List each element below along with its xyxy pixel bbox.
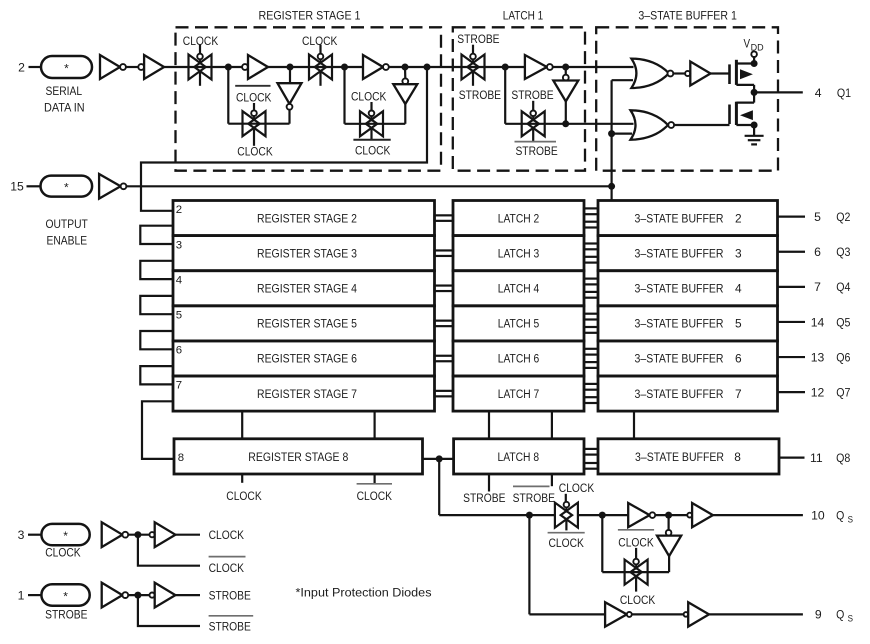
svg-text:7: 7 [176,380,182,392]
svg-text:CLOCK: CLOCK [618,536,653,550]
transmission gate latch 1 feedback [522,111,539,136]
wire node to master feedback inverter [289,67,291,83]
wire label to QS TG bubble [565,494,567,502]
input protection diode (pill) clock [41,524,89,545]
label STROBE-bar below latch feedback TG [515,141,557,143]
inverter D master feedback (points down) [278,83,302,104]
svg-text:4: 4 [176,274,182,286]
svg-text:Q6: Q6 [836,350,850,364]
wire cascade loop stage 5 to stage 6 [140,331,173,349]
wire output Q6 lead [778,356,806,358]
inverter E slave feedback (points down, input bubble) [402,78,408,84]
svg-text:2: 2 [735,211,742,225]
wire label to TG B bubble [370,102,372,111]
transmission gate TG B slave feedback [360,111,377,136]
bubble NOR1 output [668,71,674,77]
inverter H latch 1 [525,55,547,79]
svg-text:CLOCK: CLOCK [559,481,594,495]
label STROBE-bar below latch 8 [513,485,550,487]
svg-text:8: 8 [734,450,741,464]
3-state buffer 8 box [598,439,779,474]
wire label to TG A bubble [253,103,255,110]
wire QS-bar output lead [709,613,803,615]
svg-text:OUTPUT: OUTPUT [46,217,89,231]
wire master feedback line [228,123,289,125]
wire OE vertical riser [610,80,612,200]
svg-text:STROBE: STROBE [511,88,553,102]
wire STROBE-bar stub below latch 8 [551,474,553,486]
wire QS takeoff down [438,459,440,515]
wire buffer C out to TG2 [268,66,363,68]
wire STROBE rail to latch 8 [488,411,490,439]
wire TG1 bottom stub [199,73,201,86]
svg-text:LATCH 2: LATCH 2 [498,211,540,225]
svg-text:15: 15 [10,180,24,194]
connector register 5 to latch 5 [435,321,454,327]
svg-text:STROBE: STROBE [463,491,505,505]
svg-text:Q5: Q5 [836,315,850,329]
latch 6 box [453,341,584,376]
wire K1 to buffer K2 [632,613,684,615]
3-state buffer 7 box [598,376,778,411]
node QS feedback return junction [599,512,606,519]
svg-text:Q: Q [836,608,844,622]
wire inverter J1 to buffer J2 [655,514,687,516]
label CLOCK-bar net [209,556,246,558]
svg-text:*: * [63,590,68,604]
svg-text:DD: DD [751,43,764,53]
svg-text:12: 12 [811,385,825,399]
3-state buffer 4 box [598,271,778,306]
transmission gate TG A master feedback [243,111,260,136]
wire node down to latch feedback line [504,67,506,124]
wire L1 to node [128,534,149,536]
wire QS feedback line [602,571,669,573]
connector latch 5 to buffer 5 (Q-bar) [584,327,598,333]
wire inverter G out to latch 1 [389,66,525,68]
svg-text:S: S [848,515,853,526]
wire QS output lead [713,514,803,516]
wire label to TG bubble [532,101,534,111]
node stage 8 output QS takeoff [436,455,443,462]
buffer QS J2 with input bubble [687,513,692,518]
wire TG B bottom stub [370,129,372,139]
svg-text:3: 3 [18,528,25,542]
register stage 7 box [173,376,435,411]
svg-text:6: 6 [176,345,182,357]
svg-text:1: 1 [18,588,25,602]
wire NOR1 to buffer [673,72,685,74]
3-state buffer 3 box [598,236,778,271]
svg-text:3–STATE BUFFER: 3–STATE BUFFER [635,352,724,366]
node clock buffer junction [134,531,141,538]
svg-text:ENABLE: ENABLE [47,233,88,247]
svg-text:10: 10 [811,509,825,523]
ground [745,135,764,137]
svg-text:STROBE: STROBE [513,491,555,505]
wire STROBE stub below latch 8 [488,474,490,492]
inverter QS feedback (points down, input bubble) [666,530,672,536]
wire STROBE-bar rail to latch 8 [551,411,553,439]
label CLOCK-bar above QS feedback TG [618,529,654,531]
svg-text:Q7: Q7 [836,385,850,399]
register stage 2 box [173,201,435,236]
wire pin2 to protection diode [29,66,41,68]
3-state buffer 2 box [598,201,778,236]
connector latch 7 to buffer 7 (Q-bar) [584,397,598,403]
wire branch to inverter [529,613,605,615]
svg-text:STROBE: STROBE [515,144,557,158]
svg-text:REGISTER STAGE 6: REGISTER STAGE 6 [257,352,357,366]
latch 3 box [453,236,584,271]
node strobe buffer junction [134,592,141,599]
svg-text:CLOCK: CLOCK [226,489,261,503]
label CLOCK-bar above TG A [235,85,270,87]
wire CLOCK-bar branch [138,535,200,566]
dashed box REGISTER STAGE 1 [176,27,442,170]
connector latch 6 to buffer 6 (Q-bar) [584,362,598,368]
wire slave feedback line [345,123,406,125]
wire OE to NOR2 lower input [612,133,632,135]
svg-text:STROBE: STROBE [209,588,251,602]
connector register 7 to latch 7 [435,391,454,397]
svg-text:CLOCK: CLOCK [351,90,386,104]
connector latch 4 to buffer 4 (Q-bar) [584,292,598,298]
wire output Q8 lead [779,457,805,459]
wire TG3 bottom stub [472,73,474,86]
node slave inverter output [402,64,409,71]
wire pin3 to protection diode [28,534,41,536]
svg-text:REGISTER STAGE 4: REGISTER STAGE 4 [257,281,357,295]
wire cascade loop stage 2 to stage 3 [140,226,173,244]
connector latch 4 to buffer 4 (Q) [584,279,598,285]
inverter QS-bar K1 [605,602,627,626]
wire QS line to TG [439,514,555,516]
svg-text:5: 5 [814,210,821,224]
wire output Q7 lead [778,391,806,393]
svg-text:*: * [64,62,69,76]
node master input junction [225,64,232,71]
inverter G slave [363,55,383,79]
inverter clock L1 [102,522,123,547]
transistor Q1N NMOS [728,105,731,125]
wire NMOS source to ground [753,125,755,135]
svg-text:STROBE: STROBE [45,607,87,621]
latch 7 box [453,376,584,411]
wire NOR2 to NMOS gate [674,124,729,126]
svg-text:DATA IN: DATA IN [44,101,85,115]
connector register 4 to latch 4 [435,286,454,292]
svg-text:CLOCK: CLOCK [620,593,655,607]
node latch 1 output [562,64,569,71]
svg-text:LATCH 6: LATCH 6 [498,352,540,366]
svg-text:14: 14 [811,315,825,329]
svg-text:3–STATE BUFFER: 3–STATE BUFFER [635,246,724,260]
input protection diode (pill) serial data [41,56,92,78]
svg-text:4: 4 [735,281,742,295]
transmission gate TG1 register stage 1 master input [189,55,206,80]
svg-text:STROBE: STROBE [459,88,501,102]
bubble NOR2 output [668,122,674,128]
svg-text:3–STATE BUFFER: 3–STATE BUFFER [635,450,724,464]
transmission gate TG2 slave input [309,55,326,80]
svg-text:11: 11 [810,451,823,465]
wire buffer to PMOS gate [711,72,730,74]
node Q1 output [751,89,758,96]
svg-text:STROBE: STROBE [209,620,251,634]
register stage 5 box [173,306,435,341]
wire inverter I out [565,101,567,123]
transmission gate QS output [555,503,572,528]
power VDD terminal [751,51,757,57]
transmission gate QS feedback [625,560,642,585]
wire node down to QS feedback inverter [667,515,669,530]
wire node down to latch feedback inverter [565,67,567,75]
svg-text:4: 4 [815,86,822,100]
svg-text:CLOCK: CLOCK [45,546,80,560]
wire stage 1 output down-left to stage 2 input [141,67,427,211]
svg-text:*Input Protection Diodes: *Input Protection Diodes [296,586,432,600]
svg-text:3–STATE BUFFER: 3–STATE BUFFER [635,281,724,295]
wire node down to master feedback [227,67,229,124]
svg-text:3: 3 [176,239,182,251]
svg-text:REGISTER STAGE 7: REGISTER STAGE 7 [257,387,357,401]
wire PMOS drain to output node [753,85,755,93]
svg-text:LATCH 5: LATCH 5 [498,317,540,331]
wire QS-bar branch down [528,515,530,614]
node latch 1 input junction [502,64,509,71]
svg-text:Q: Q [836,509,844,523]
connector latch 2 to buffer 2 (Q-bar) [584,222,598,228]
wire cascade loop stage 3 to stage 4 [140,261,173,279]
wire cascade loop stage 4 to stage 5 [140,296,173,314]
wire cascade loop stage 7 to stage 8 [142,401,174,459]
svg-text:CLOCK: CLOCK [549,536,584,550]
wire CLOCK output [175,534,200,536]
wire stage 8 output to latch 8 [423,458,454,460]
svg-text:S: S [848,614,853,625]
connector latch 3 to buffer 3 (Q-bar) [584,257,598,263]
label CLOCK-bar below QS TG [548,532,585,534]
connector latch 8 to buffer 8 (Q) [584,449,598,455]
svg-text:Q2: Q2 [836,210,850,224]
inverter QS J1 [628,503,649,527]
wire OE to NOR1 lower input [612,79,633,81]
svg-text:7: 7 [735,387,742,401]
svg-text:5: 5 [176,310,182,322]
wire A2 to TG1 [164,66,242,68]
wire inverter E out to feedback line [404,104,406,124]
svg-text:LATCH 8: LATCH 8 [498,450,540,464]
wire A1 to A2 [126,66,138,68]
wire feedback TG bottom stub [635,578,637,592]
latch 2 box [453,201,584,236]
wire TG to inverter [578,514,628,516]
svg-text:LATCH 4: LATCH 4 [498,281,540,295]
buffer U2 with input bubble [685,71,690,76]
svg-text:CLOCK: CLOCK [355,144,390,158]
wire TG bottom stub [532,129,534,141]
wire output node to NMOS drain [753,92,755,102]
node PMOS source [751,60,758,67]
node master output [287,64,294,71]
wire node to slave feedback inverter [404,67,406,78]
3-state buffer 6 box [598,341,778,376]
connector latch 6 to buffer 6 (Q) [584,349,598,355]
svg-text:CLOCK: CLOCK [209,528,244,542]
register stage 4 box [173,271,435,306]
wire output Q3 lead [778,251,806,253]
register stage 6 box [173,341,435,376]
NOR gate U1 (upper) [631,59,669,88]
connector latch 7 to buffer 7 (Q) [584,384,598,390]
label CLOCK-bar below TG B [353,139,390,141]
svg-text:Q8: Q8 [836,451,850,465]
svg-text:Q1: Q1 [837,86,851,100]
svg-text:2: 2 [18,60,25,74]
svg-text:*: * [63,529,68,543]
inverter strobe M1 [102,583,123,608]
svg-text:CLOCK: CLOCK [209,561,244,575]
wire STROBE output [175,594,200,596]
wire OE rail to buffer 8 [633,411,635,439]
connector register 6 to latch 6 [435,356,454,362]
svg-text:7: 7 [814,280,821,294]
node latch feedback junction [562,120,569,127]
wire inverter D out to feedback line [288,110,290,124]
svg-text:REGISTER STAGE 8: REGISTER STAGE 8 [248,450,348,464]
svg-text:REGISTER STAGE 3: REGISTER STAGE 3 [257,246,357,260]
svg-text:3: 3 [735,246,742,260]
wire output Q4 lead [778,286,806,288]
node slave input junction [341,64,348,71]
3-state buffer 5 box [598,306,778,341]
connector register 3 to latch 3 [435,250,454,256]
connector latch 3 to buffer 3 (Q) [584,244,598,250]
buffer strobe M2 with input bubble [150,593,155,598]
connector register 2 to latch 2 [435,215,454,221]
wire inverter H to NOR1 [553,66,634,68]
node OE rail junction [608,183,615,190]
wire TG A bottom stub [253,129,255,146]
wire pin15 to protection diode [27,185,41,187]
register stage 8 box [174,439,423,474]
wire feedback inverter out [668,556,670,572]
NOR gate U3 (lower) [631,110,669,139]
latch 8 box [454,439,584,474]
svg-text:REGISTER STAGE 2: REGISTER STAGE 2 [257,211,357,225]
transistor Q1P PMOS [728,64,731,84]
wire OE rail to 3-state buffers [126,185,611,187]
svg-text:SERIAL: SERIAL [46,84,83,98]
inverter OE [99,174,121,199]
svg-text:3–STATE BUFFER 1: 3–STATE BUFFER 1 [638,8,737,22]
svg-text:3–STATE BUFFER: 3–STATE BUFFER [635,317,724,331]
svg-text:*: * [64,181,69,195]
latch 5 box [453,306,584,341]
svg-text:REGISTER STAGE 5: REGISTER STAGE 5 [257,317,357,331]
register stage 3 box [173,236,435,271]
svg-text:REGISTER STAGE 1: REGISTER STAGE 1 [259,8,361,22]
node QS branch to pin 9 path [526,512,533,519]
buffer clock L2 with input bubble [150,532,155,537]
dashed box LATCH 1 [453,27,585,170]
buffer C master with input bubble [242,64,248,70]
input protection diode (pill) output enable [41,176,93,197]
node NMOS source [751,122,758,129]
svg-text:9: 9 [815,608,822,622]
wire VDD to PMOS source [753,57,755,64]
wire CLOCK-bar rail to stage 8 [374,411,376,439]
wire CLOCK-bar stub below stage 8 [374,474,376,484]
transmission gate TG3 latch 1 input [462,55,479,80]
svg-text:LATCH 3: LATCH 3 [498,246,540,260]
svg-text:CLOCK: CLOCK [237,144,272,158]
wire TG2 bottom stub [319,73,321,86]
latch 4 box [453,271,584,306]
wire CLOCK rail to stage 8 [241,411,243,439]
svg-text:CLOCK: CLOCK [236,91,271,105]
svg-text:2: 2 [176,204,182,216]
label CLOCK-bar below stage 8 [357,483,392,485]
svg-text:CLOCK: CLOCK [357,489,392,503]
wire pin1 to protection diode [28,594,41,596]
wire STROBE-bar branch [138,595,200,626]
svg-text:Q4: Q4 [836,280,850,294]
wire M1 to node [128,594,149,596]
inverter I latch feedback (points down, input bubble) [563,75,569,81]
node QS latch output [665,512,672,519]
svg-text:LATCH 1: LATCH 1 [503,8,544,22]
wire CLOCK label to TG2 bubble [319,45,321,54]
wire CLOCK label to TG1 bubble [199,45,201,54]
connector latch 5 to buffer 5 (Q) [584,314,598,320]
wire feedback return up [601,515,603,572]
svg-text:6: 6 [735,352,742,366]
wire CLOCK stub below stage 8 [241,474,243,483]
connector latch 8 to buffer 8 (Q-bar) [584,463,598,469]
wire label to feedback TG bubble [635,548,637,559]
wire output Q2 lead [778,216,806,218]
input protection diode (pill) strobe [41,584,89,605]
node OE to NOR2 [608,130,615,137]
svg-text:LATCH 7: LATCH 7 [498,387,540,401]
wire cascade loop stage 6 to stage 7 [140,366,173,384]
inverter A1 serial input [100,55,120,79]
label STROBE-bar net [209,615,254,617]
dashed box 3-STATE BUFFER 1 [596,27,778,170]
svg-text:6: 6 [814,245,821,259]
svg-text:STROBE: STROBE [457,32,499,46]
connector latch 2 to buffer 2 (Q) [584,208,598,214]
svg-text:3–STATE BUFFER: 3–STATE BUFFER [635,211,724,225]
svg-text:13: 13 [811,350,825,364]
wire QS TG bottom stub [565,521,567,531]
svg-text:5: 5 [735,317,742,331]
wire output Q5 lead [778,321,806,323]
svg-text:8: 8 [178,452,184,464]
svg-text:3–STATE BUFFER: 3–STATE BUFFER [635,387,724,401]
buffer QS-bar K2 with input bubble [684,612,689,617]
buffer A2 with input bubble [138,64,144,70]
wire latch 1 feedback line to NOR2 [505,123,633,125]
wire node down to slave feedback [343,67,345,124]
node register stage 1 output [424,64,431,71]
wire STROBE label to TG3 bubble [472,45,474,54]
svg-text:Q3: Q3 [836,245,850,259]
wire Q1 output lead [754,91,803,93]
